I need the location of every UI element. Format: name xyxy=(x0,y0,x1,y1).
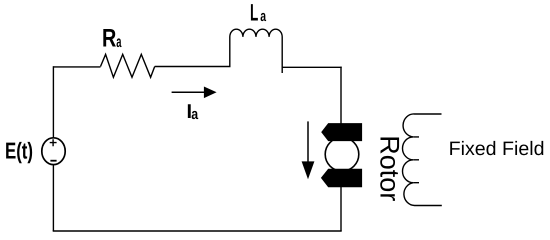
svg-text:Fixed Field: Fixed Field xyxy=(449,138,545,160)
rotor bottom brush arrow xyxy=(321,169,362,187)
wire: right vertical xyxy=(340,67,342,231)
svg-text:E(t): E(t) xyxy=(5,137,33,163)
wire: left vertical lower segment xyxy=(52,165,54,231)
fixed field coil cusp ticks xyxy=(413,137,419,183)
rotor top brush arrow xyxy=(321,123,362,141)
voltage source E(t) xyxy=(42,138,65,165)
svg-text:Rotor: Rotor xyxy=(374,135,404,201)
plus sign inside source xyxy=(50,139,57,146)
svg-text:a: a xyxy=(260,8,266,25)
minus sign inside source xyxy=(50,160,56,162)
wire: top-left horizontal from node A to resistor xyxy=(53,66,100,68)
svg-text:a: a xyxy=(116,34,121,51)
current arrow Ia xyxy=(172,87,217,99)
wire: between inductor and right vertical xyxy=(282,66,342,68)
inductor La coil xyxy=(230,29,282,73)
wire: left vertical upper segment xyxy=(52,66,54,138)
svg-text:R: R xyxy=(102,25,116,53)
svg-text:a: a xyxy=(191,106,198,123)
fixed field coil xyxy=(403,114,442,206)
wire: between resistor and inductor xyxy=(155,66,231,68)
svg-text:L: L xyxy=(250,0,258,26)
wire: bottom horizontal xyxy=(53,230,342,232)
down arrow (armature current direction) xyxy=(302,121,315,179)
rotor circle xyxy=(325,138,359,172)
resistor Ra zigzag xyxy=(101,54,155,77)
